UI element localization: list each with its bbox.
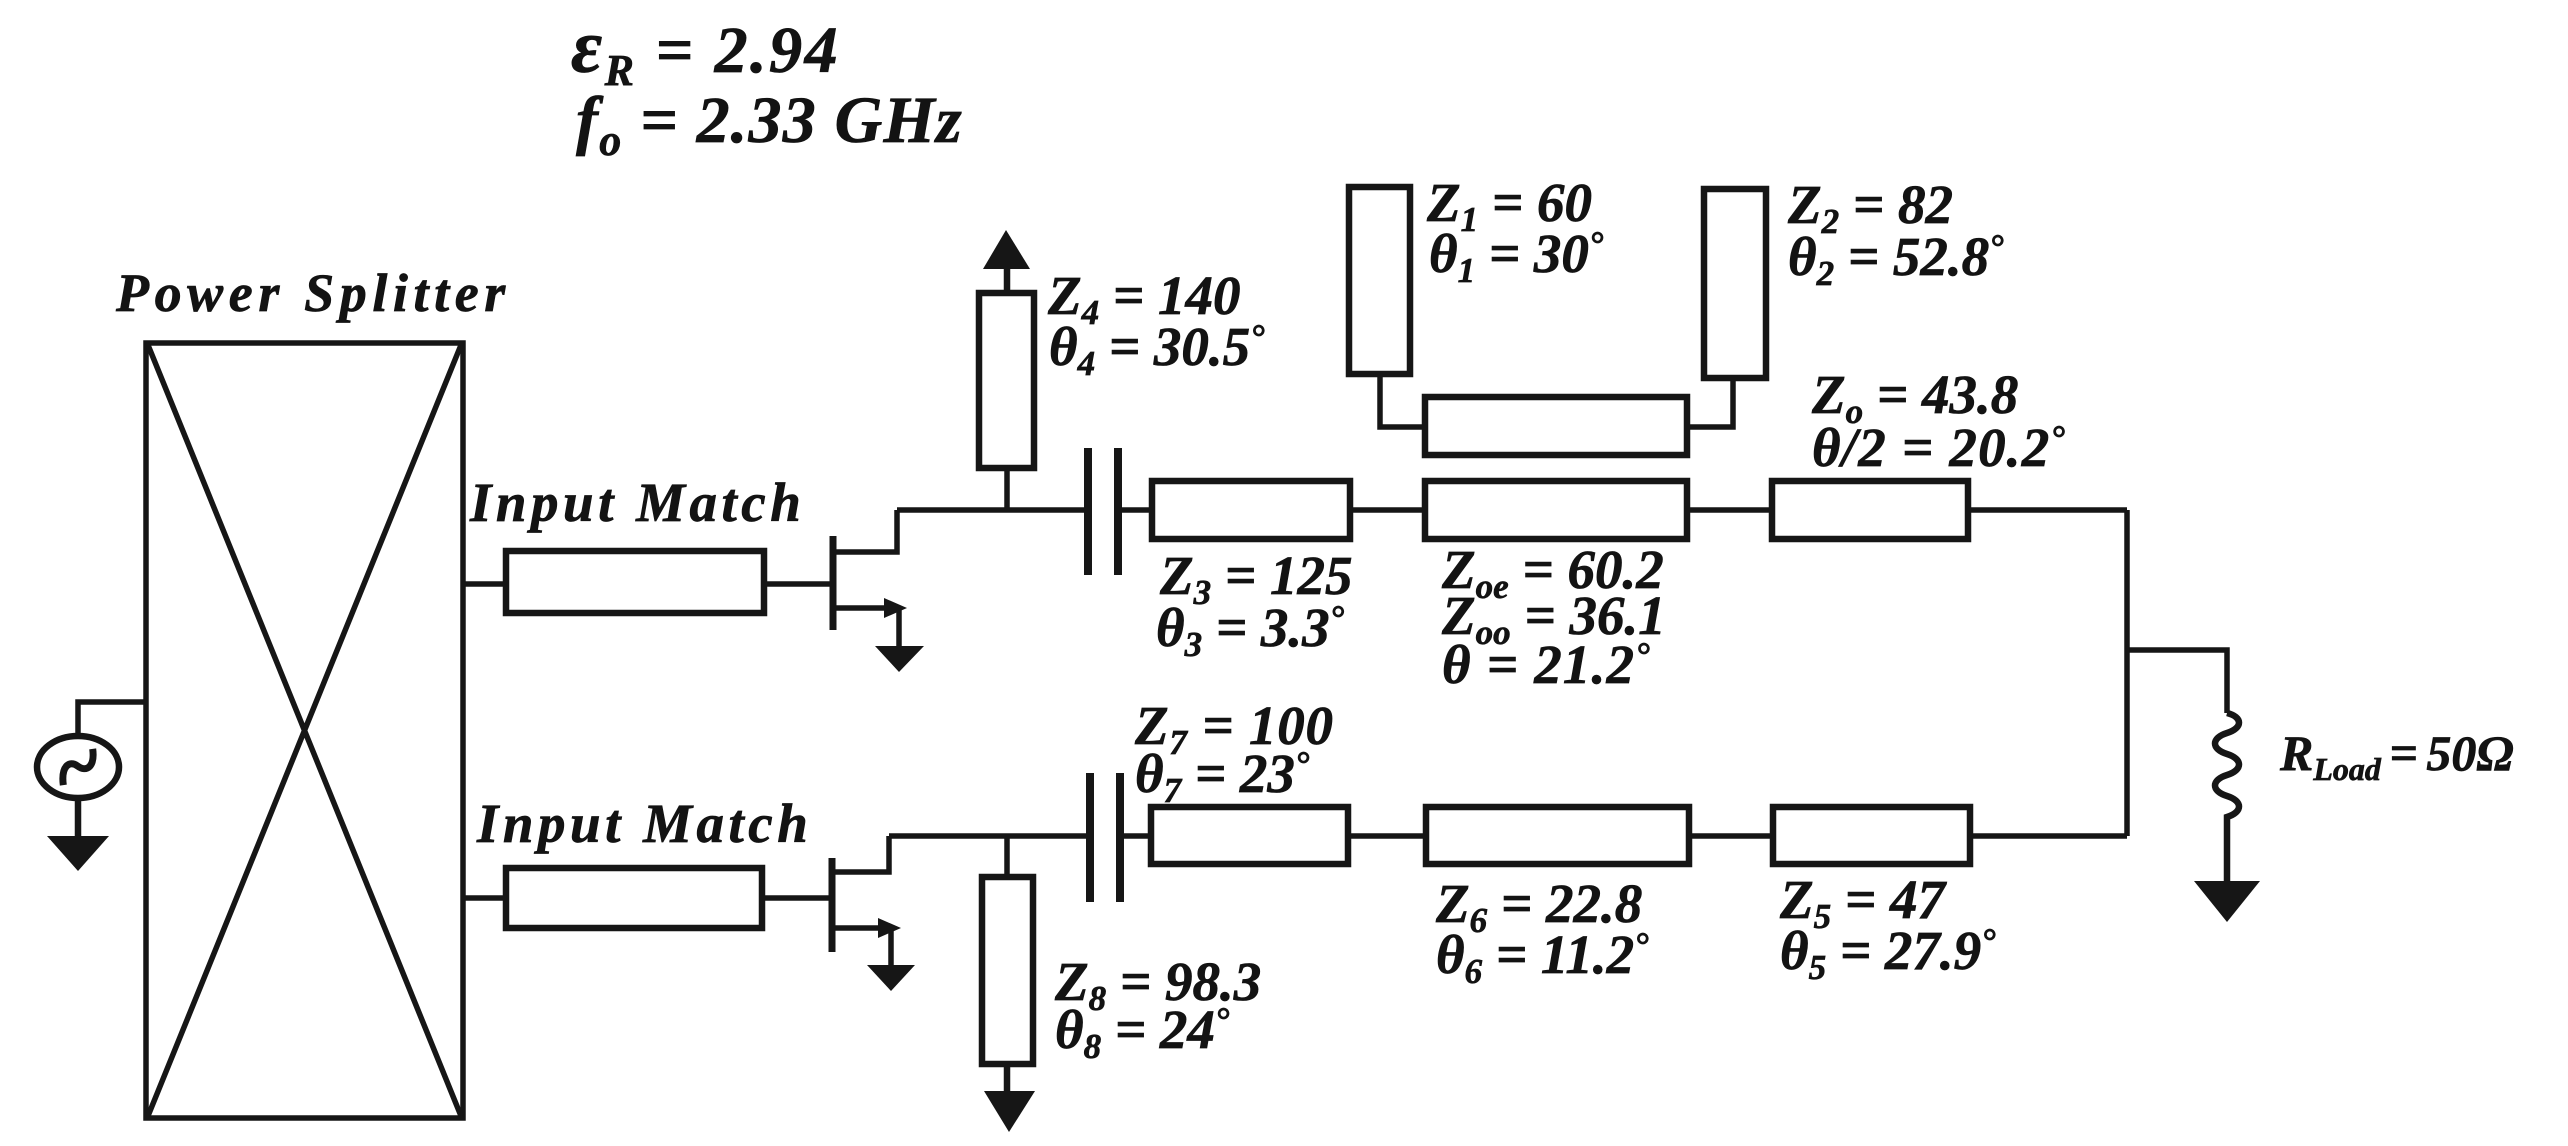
wire splitter to input match 2 <box>463 895 506 901</box>
wire stub Z4 to arrow <box>1004 255 1011 293</box>
wire Z2 to coupled line <box>1687 378 1733 427</box>
wire source to ground <box>75 797 82 840</box>
wire splitter to input match 1 <box>463 581 506 587</box>
ground (load) <box>2194 881 2260 922</box>
label Zo = 43.8 <box>1811 364 2018 431</box>
svg-text:θ7 = 23°: θ7 = 23° <box>1135 743 1310 810</box>
svg-text:θ3 = 3.3°: θ3 = 3.3° <box>1156 597 1345 664</box>
label theta8 = 24 <box>1055 999 1230 1066</box>
transmission line Z7 <box>1151 807 1348 864</box>
label Zoo = 36.1 <box>1441 585 1666 652</box>
coupled line upper conductor <box>1425 397 1687 455</box>
label Input Match (top) <box>469 472 805 533</box>
transmission line Z5 <box>1773 807 1970 864</box>
capacitor C1 <box>1088 448 1118 575</box>
label Z1 = 60 <box>1426 172 1592 239</box>
stub Z4 <box>979 293 1034 468</box>
wire C1 to Z3 <box>1118 507 1152 513</box>
resistor R_Load <box>2215 713 2239 825</box>
svg-text:fo = 2.33 GHz: fo = 2.33 GHz <box>576 84 963 165</box>
transistor Q1 <box>833 510 907 648</box>
stub Z2 <box>1704 189 1766 378</box>
transmission line Zo <box>1772 481 1968 539</box>
label theta/2 = 20.2 <box>1812 417 2066 478</box>
label Z3 = 125 <box>1159 545 1352 612</box>
stub Z8 <box>982 877 1033 1064</box>
label theta3 = 3.3 <box>1156 597 1345 664</box>
coupled line lower conductor Zoe/Zoo <box>1425 481 1687 539</box>
capacitor C2 <box>1090 773 1120 902</box>
wire Z5 to combiner node <box>1970 833 2127 839</box>
label Z7 = 100 <box>1134 695 1334 762</box>
label Input Match (bottom) <box>476 793 812 854</box>
wire Z6 to Z5 <box>1689 833 1773 839</box>
svg-text:Input Match: Input Match <box>476 793 812 854</box>
label Z4 = 140 <box>1047 265 1240 332</box>
power arrow (Z4 top) <box>983 230 1030 269</box>
wire source to splitter <box>78 702 146 738</box>
label Zoe = 60.2 <box>1441 539 1664 606</box>
transmission line Z3 <box>1152 481 1350 539</box>
label theta1 = 30 <box>1429 223 1604 290</box>
ground (Q2 emitter) <box>867 965 915 991</box>
wire input match 2 to Q2 gate <box>762 895 832 901</box>
label theta6 = 11.2 <box>1436 924 1649 991</box>
combiner vertical wire <box>2124 510 2130 836</box>
wire Z1 to coupled line <box>1380 374 1425 427</box>
wire Z7 to Z6 <box>1348 833 1426 839</box>
wire C2 to Z7 <box>1120 833 1151 839</box>
wire coupled line to Zo <box>1687 507 1772 513</box>
svg-text:θ1 = 30°: θ1 = 30° <box>1429 223 1604 290</box>
wire input match 1 to Q1 gate <box>764 581 833 587</box>
wire Q2 drain to capacitor C2 <box>889 833 1090 839</box>
label R_Load = 50 ohm <box>2279 725 2514 787</box>
transmission line input match 2 <box>506 868 762 928</box>
wire Zo to combiner node <box>1968 507 2127 513</box>
label theta2 = 52.8 <box>1788 226 2004 293</box>
power splitter box <box>146 343 463 1118</box>
label f_o = 2.33 GHz <box>576 84 963 165</box>
transmission line Z6 <box>1426 807 1689 864</box>
source V1 <box>37 736 119 798</box>
label theta5 = 27.9 <box>1780 920 1996 987</box>
svg-text:Input Match: Input Match <box>469 472 805 533</box>
wire junction to stub Z4 <box>1004 468 1010 510</box>
svg-text:θ = 21.2°: θ = 21.2° <box>1442 634 1651 695</box>
wire resistor to ground <box>2224 825 2231 884</box>
wire junction to stub Z8 <box>1004 836 1010 877</box>
svg-text:Power Splitter: Power Splitter <box>115 263 511 323</box>
label Z8 = 98.3 <box>1054 951 1261 1018</box>
label theta4 = 30.5 <box>1049 316 1265 383</box>
wire tap to load <box>2127 650 2227 713</box>
stub Z1 <box>1349 187 1410 374</box>
label theta = 21.2 <box>1442 634 1651 695</box>
label theta7 = 23 <box>1135 743 1310 810</box>
ground (source) <box>47 836 109 871</box>
label Z6 = 22.8 <box>1435 873 1642 940</box>
svg-text:θ8 = 24°: θ8 = 24° <box>1055 999 1230 1066</box>
label epsilon_R = 2.94 <box>571 5 840 95</box>
wire Q1 drain to capacitor C1 <box>897 507 1088 513</box>
ground (Q1 emitter) <box>875 646 924 672</box>
ground (Z8) <box>984 1091 1035 1132</box>
transistor Q2 <box>832 836 901 967</box>
wire Z3 to coupled line <box>1350 507 1425 513</box>
label Z2 = 82 <box>1787 174 1953 241</box>
svg-text:θ/2 = 20.2°: θ/2 = 20.2° <box>1812 417 2066 478</box>
label Power Splitter <box>115 263 511 323</box>
wire stub Z8 to ground <box>1004 1064 1011 1095</box>
transmission line input match 1 <box>506 551 764 613</box>
label Z5 = 47 <box>1779 869 1947 936</box>
